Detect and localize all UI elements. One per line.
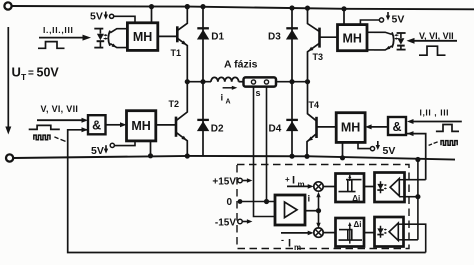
- svg-text:50V: 50V: [37, 66, 60, 80]
- svg-text:T4: T4: [309, 100, 320, 110]
- svg-text:MH: MH: [133, 30, 152, 44]
- svg-text:&: &: [92, 119, 101, 133]
- svg-text:V, VI, VII: V, VI, VII: [41, 104, 79, 114]
- svg-text:m: m: [298, 180, 305, 189]
- svg-text:A: A: [226, 99, 231, 106]
- svg-text:I: I: [288, 238, 291, 250]
- svg-text:-: -: [281, 235, 284, 245]
- svg-text:5V: 5V: [91, 145, 104, 157]
- svg-text:I,II , III: I,II , III: [420, 107, 450, 117]
- svg-text:=: =: [28, 68, 34, 79]
- svg-text:i: i: [221, 93, 224, 104]
- svg-text:Δi: Δi: [352, 194, 360, 203]
- svg-text:D1: D1: [211, 31, 224, 42]
- svg-text:i: i: [308, 194, 311, 205]
- svg-text:5V: 5V: [392, 14, 405, 26]
- svg-text:s: s: [256, 88, 261, 98]
- svg-text:&: &: [392, 120, 401, 134]
- svg-text:Δi: Δi: [354, 220, 362, 229]
- svg-text:+: +: [285, 175, 290, 184]
- svg-text:D3: D3: [268, 31, 281, 42]
- svg-text:T1: T1: [171, 48, 182, 58]
- svg-text:MH: MH: [341, 121, 360, 135]
- svg-text:MH: MH: [342, 31, 361, 45]
- svg-text:I.,II.,III: I.,II.,III: [43, 25, 74, 35]
- svg-text:U: U: [12, 65, 21, 80]
- svg-text:5V: 5V: [383, 145, 396, 157]
- svg-text:T2: T2: [169, 99, 180, 109]
- svg-text:MH: MH: [131, 119, 150, 133]
- svg-text:A fázis: A fázis: [224, 59, 258, 71]
- svg-text:5V: 5V: [90, 11, 103, 23]
- svg-text:T: T: [21, 72, 27, 82]
- svg-text:m: m: [294, 243, 301, 252]
- svg-text:V, VI, VII: V, VI, VII: [419, 31, 454, 41]
- svg-text:I: I: [292, 175, 295, 187]
- svg-text:T3: T3: [313, 52, 324, 62]
- svg-text:D2: D2: [211, 124, 224, 135]
- svg-text:+15V: +15V: [212, 177, 236, 188]
- svg-text:0: 0: [226, 197, 232, 208]
- svg-text:D4: D4: [269, 124, 282, 135]
- svg-text:-15V: -15V: [215, 218, 236, 229]
